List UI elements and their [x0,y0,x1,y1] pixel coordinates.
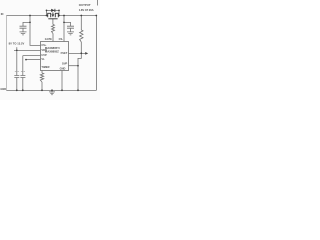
svg-text:8V TO 13.2V: 8V TO 13.2V [9,42,25,46]
wire timer pin [41,71,43,74]
wire output sense branch [63,16,65,42]
label C4 tick [21,71,25,73]
svg-text:CS-: CS- [59,37,64,41]
node diode right [58,10,60,12]
wire FB pin [69,52,86,54]
wire input cap stub [23,22,30,26]
node FET right [58,15,60,17]
wire GND pin [61,71,63,91]
transistor Q1 [47,12,60,18]
resistor R3 timer [40,73,43,82]
wire timer resistor bottom [41,82,43,90]
diode D1 cathode bar [54,9,56,12]
wire C4 branch [22,56,24,76]
svg-text:OUTPUT: OUTPUT [79,3,91,7]
wire FB jog down [78,53,81,90]
wire left rail [5,16,7,91]
resistor R1 gate [52,25,55,34]
node gnd C3 [16,89,18,91]
wire diode bypass loop [47,10,60,15]
svg-text:GND: GND [60,66,66,70]
node FB junction [80,52,82,54]
arrow FB output [85,52,88,55]
node rail-sense [63,15,65,17]
wire VDD pin [14,49,41,51]
wire bottom rail [6,89,96,91]
svg-text:CS+: CS+ [41,43,47,47]
svg-text:VL: VL [41,57,45,61]
capacitor C2 [67,26,74,32]
resistor R2 divider [80,30,83,42]
node rail-input branch [29,15,31,17]
wire divider top [80,16,82,31]
svg-text:UVP: UVP [41,53,47,57]
svg-text:IN: IN [1,12,4,16]
node rail-divider [80,15,82,17]
capacitor C3 [14,76,19,91]
node rail-out corner [95,15,97,17]
wire VDD tick [16,47,18,50]
wire top rail right [59,15,96,17]
wire gate lead lower [52,34,54,42]
junction dots [16,10,97,92]
transistor Q1 body arrow [52,14,55,17]
node output cap stub [63,21,65,23]
wire output cap stub [64,22,71,26]
node gnd timer R [41,89,43,91]
op-amp U1 box MAX8805 [41,42,69,71]
node FET left [46,15,48,17]
ground rail symbol [49,90,55,94]
wire input branch [30,16,41,46]
svg-text:1.8V AT 20A: 1.8V AT 20A [79,8,94,12]
wire OVP pin [69,65,79,67]
node FL end [25,59,27,61]
wire top rail left [6,15,46,17]
wire divider bottom [80,42,82,53]
svg-text:VDD: VDD [41,48,47,52]
node gnd symbol [51,89,53,91]
node diode left [46,10,48,12]
wire UVP pin [23,55,41,57]
svg-text:TIMER: TIMER [41,65,49,69]
node OVP junction [77,65,79,67]
svg-text:FSET: FSET [61,51,68,55]
svg-text:GND: GND [0,87,6,91]
svg-text:MAX8805Z: MAX8805Z [45,50,59,54]
wire right rail [95,16,97,91]
wire C3 branch [16,50,18,75]
diode D1 [51,9,54,12]
node input cap stub [29,21,31,23]
capacitor C4 [20,76,25,91]
node gnd divider [77,89,79,91]
wire top-right edge fragment [96,0,98,6]
label C3 tick [15,71,19,73]
ground input cap [20,32,27,35]
capacitor C1 [20,26,27,32]
ground output cap [67,32,74,35]
svg-text:OVP: OVP [62,61,68,65]
node VDD branch [16,49,18,51]
svg-text:GATE: GATE [45,37,52,41]
wire gate lead upper [52,19,54,25]
wire FL pin [26,59,41,61]
node gnd pin [61,89,63,91]
node gnd C4 [22,89,24,91]
